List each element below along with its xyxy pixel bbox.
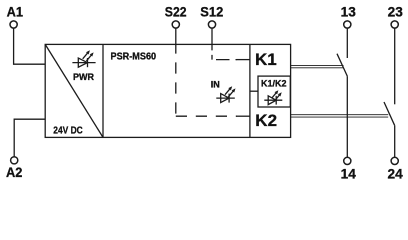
power supply U1 diagonal	[45, 44, 103, 137]
wire 14 moving contact	[346, 76, 348, 157]
terminal A2	[6, 157, 23, 180]
svg-text:S22: S22	[165, 4, 187, 19]
terminal A1	[7, 4, 24, 28]
wire to K1/K2 box	[250, 90, 258, 92]
LED K1/K2	[264, 90, 282, 104]
svg-text:23: 23	[388, 4, 404, 19]
wire 13 fixed contact	[346, 28, 348, 58]
wire S12 drop	[211, 28, 213, 45]
svg-text:A2: A2	[6, 165, 23, 180]
terminal 23	[388, 4, 404, 28]
terminal 13	[341, 4, 357, 28]
svg-text:K1/K2: K1/K2	[261, 79, 287, 89]
contact blade 13-14	[337, 54, 347, 77]
wire input block to K section upper	[237, 59, 250, 61]
svg-text:14: 14	[341, 166, 357, 181]
relay section left edge	[249, 44, 251, 137]
terminal S12	[200, 4, 223, 28]
wire A1 to power supply	[14, 28, 46, 64]
dashed S12 internal horizontal	[212, 59, 237, 61]
dashed S12 internal drop	[211, 44, 213, 59]
svg-text:24: 24	[388, 166, 404, 181]
svg-text:PSR-MS60: PSR-MS60	[111, 52, 157, 63]
svg-text:13: 13	[341, 4, 357, 19]
svg-text:IN: IN	[211, 79, 220, 89]
LED PWR	[72, 50, 95, 67]
K1/K2 LED box	[258, 76, 290, 107]
wire A2 to power supply	[14, 119, 45, 157]
dashed input block left edge (S22 internal)	[175, 44, 177, 116]
terminal S22	[165, 4, 187, 28]
svg-text:A1: A1	[7, 4, 24, 19]
contact blade 23-24	[384, 102, 395, 125]
power supply U1 right edge	[102, 44, 104, 137]
svg-text:24V DC: 24V DC	[53, 126, 82, 137]
terminal 14	[341, 157, 357, 181]
mechanical linkage K2 contact (double line)	[291, 115, 389, 117]
wire 24 moving contact	[394, 125, 396, 157]
wire S22 drop	[175, 28, 177, 45]
svg-text:S12: S12	[200, 4, 223, 19]
svg-text:PWR: PWR	[73, 72, 94, 82]
LED IN	[216, 86, 235, 102]
module outline PSR-MS60	[45, 44, 290, 137]
svg-text:K1: K1	[255, 50, 277, 69]
terminal 24	[388, 157, 404, 181]
dashed input block bottom edge	[176, 115, 237, 117]
wire 23 fixed contact	[394, 28, 396, 104]
svg-text:K2: K2	[255, 111, 277, 130]
wire input block to K section lower	[237, 115, 250, 117]
mechanical linkage K1 contact (double line)	[291, 65, 344, 67]
